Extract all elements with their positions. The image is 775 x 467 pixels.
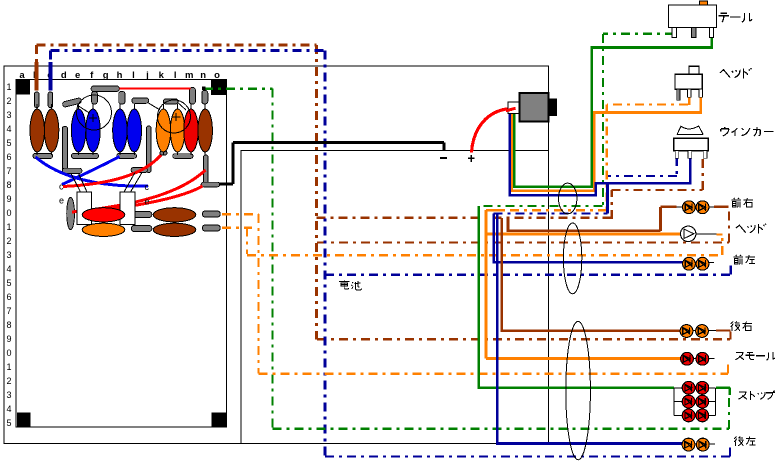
- wire: green solid tail switch to motor plus: [479, 30, 730, 395]
- label: battery plus: [468, 155, 475, 162]
- diode body orange row11: [82, 223, 125, 236]
- switch SW1 tail button: [700, 1, 708, 5]
- LED rear-right 1: [680, 325, 693, 338]
- diode link pill left row10: [131, 212, 152, 218]
- wire: brown solid front-right lamp feed: [502, 207, 729, 331]
- wire: navy dash-dot to winker left leg: [607, 157, 676, 176]
- LED stop 6: [696, 409, 709, 422]
- LED body b (brown): [30, 109, 44, 152]
- wire: brown dash-dot rail from breadboard b1 to right: [37, 45, 317, 339]
- LED small 2: [696, 352, 709, 365]
- diode body red row10: [82, 208, 125, 222]
- wire: brown dash-dot front-right lamp return: [317, 208, 729, 243]
- motor M1 terminal block: [508, 102, 520, 114]
- LED stop 3: [682, 395, 695, 408]
- lamp cluster rear-left wire: [682, 443, 715, 445]
- lamp cluster rear-right wire: [680, 330, 716, 332]
- svg-text:1: 1: [6, 82, 11, 92]
- wire: orange solid head lamp feed: [486, 233, 680, 236]
- svg-text:4: 4: [6, 124, 11, 134]
- pin m1-m2: [189, 88, 195, 105]
- switch SW1 leg 1: [672, 28, 677, 38]
- switch SW2 head knob: [689, 66, 699, 74]
- wire: green dash-dot from tail switch left leg: [479, 34, 674, 206]
- lamp head wire: [680, 233, 716, 235]
- lead diagonal j2 pill to k3: [148, 102, 161, 110]
- component leads (thin black): [37, 104, 205, 155]
- label stop ストップ: [738, 391, 775, 400]
- LED body h (blue): [113, 109, 127, 152]
- switch SW3 leg 1: [675, 151, 679, 159]
- LED rear-left 1: [682, 438, 695, 451]
- svg-text:4: 4: [6, 404, 11, 414]
- jumper wire blue h6 to c1 pad: [62, 157, 120, 185]
- svg-text:1: 1: [6, 222, 11, 232]
- lead diagonal l2 pill to m3: [178, 103, 186, 110]
- LED front-right 1: [683, 201, 696, 214]
- LED stop 1: [682, 381, 695, 394]
- LED body c (brown): [44, 109, 58, 152]
- wire: red battery plus to motor: [472, 108, 516, 152]
- LED front-left 1: [683, 257, 696, 270]
- jumper g1-h1: [91, 86, 119, 92]
- wire: orange dash-dot from head switch middle leg: [502, 105, 688, 211]
- svg-text:7: 7: [6, 166, 11, 176]
- wire: black minus wire from breadboard n8 to battery: [220, 143, 444, 185]
- LED body i (blue): [127, 109, 141, 152]
- wire: brown dash-dot winker return: [317, 157, 703, 219]
- switch SW2 leg 2: [688, 89, 691, 97]
- svg-text:9: 9: [6, 334, 11, 344]
- svg-text:5: 5: [6, 138, 11, 148]
- wire: navy solid rear-left lamp feed: [497, 214, 682, 444]
- lamp cluster stop bracket: [674, 388, 716, 416]
- breadboard wire stub navy column c: [49, 62, 53, 91]
- LED stop 5: [682, 409, 695, 422]
- transistor T2 body: [120, 192, 135, 225]
- lamp cluster front-left wire: [683, 261, 715, 263]
- switch SW3 leg 2: [688, 151, 692, 159]
- jumper wire red k6 to c1: [63, 155, 161, 187]
- motor M1 body: [520, 93, 549, 122]
- lamp head bulb triangle: [684, 229, 694, 239]
- diode body brown row10 right: [153, 208, 196, 222]
- svg-text:m: m: [185, 70, 193, 81]
- diode link pill right row10: [202, 211, 220, 217]
- LED stop 4: [696, 395, 709, 408]
- svg-text:g: g: [103, 70, 109, 81]
- transistor T1 body: [77, 192, 91, 225]
- LED small 1: [681, 352, 694, 365]
- svg-text:2: 2: [6, 376, 11, 386]
- pin c1-c2: [48, 92, 53, 108]
- svg-text:n: n: [200, 70, 206, 81]
- wire: navy solid motor to winker middle leg: [494, 107, 691, 444]
- cable bundle tie 3: [566, 321, 591, 459]
- wire: navy dash-dot front-left lamp return: [325, 264, 731, 275]
- jumper d4-d7: [62, 126, 67, 172]
- green junction dot at n1: [202, 87, 206, 91]
- lamp cluster small wire: [680, 358, 715, 360]
- LED body f (blue): [86, 109, 100, 152]
- wire: orange solid head switch to motor plus: [486, 97, 701, 359]
- pill e6-f6: [72, 153, 99, 158]
- pin h2: [119, 92, 125, 105]
- switch SW3 winker body: [674, 138, 709, 150]
- svg-text:5: 5: [6, 418, 11, 428]
- switch SW2 leg 1: [677, 89, 680, 100]
- switch SW1 leg 2: [691, 28, 696, 38]
- label front-right 前右: [731, 198, 753, 208]
- label tail switch テール: [719, 13, 753, 22]
- cable bundle tie 1: [559, 183, 577, 214]
- label winker switch ウィンカー: [721, 127, 774, 136]
- jumper wire red h1 to m1: [119, 87, 190, 89]
- LED body k (orange): [156, 109, 170, 152]
- wire: orange dash-dot head lamp return: [247, 235, 722, 256]
- svg-text:3: 3: [6, 110, 11, 120]
- lead diagonal d2 pill to f3: [77, 105, 94, 116]
- LED body m (red): [184, 109, 198, 152]
- pin n2: [202, 90, 208, 104]
- jumper wire red n8 to diode: [85, 186, 203, 214]
- svg-text:7: 7: [6, 306, 11, 316]
- svg-text:5: 5: [6, 278, 11, 288]
- svg-text:d: d: [61, 70, 67, 81]
- wire: orange dash-dot stubs from breadboard diodes: [222, 105, 728, 374]
- switch SW1 tail body: [669, 5, 717, 28]
- label: battery minus: [440, 157, 447, 159]
- wire: green dash-dot from breadboard n1 around bottom: [204, 34, 729, 429]
- transistor circle symbol 2: [158, 100, 191, 133]
- svg-text:h: h: [117, 70, 123, 81]
- pin g2: [92, 92, 98, 105]
- switch SW3 leg 3: [703, 151, 707, 159]
- svg-text:j: j: [145, 70, 149, 81]
- wire: orange solid feed drop to small lamp: [486, 210, 680, 358]
- breadboard corner hole top-right: [211, 80, 227, 95]
- wire: green solid stop lamp out to return: [716, 388, 730, 395]
- transistor circle 1 cross: [89, 114, 97, 122]
- jumper d2-e2 slanted: [62, 98, 82, 108]
- wire: brown dash-dot rear-right lamp return: [317, 332, 730, 340]
- switch SW2 head body: [675, 74, 702, 89]
- wire: orange solid head switch middle leg stub: [688, 97, 691, 105]
- jumper wire red n7 to e1: [72, 170, 206, 212]
- switch SW2 leg 3: [699, 89, 702, 97]
- svg-text:k: k: [159, 70, 165, 81]
- LED body l (orange): [170, 109, 184, 152]
- battery box: [241, 150, 549, 443]
- LED stop 2: [696, 381, 709, 394]
- svg-text:e: e: [59, 196, 64, 206]
- label rear-left 後左: [734, 436, 756, 446]
- svg-text:9: 9: [6, 194, 11, 204]
- pin b1-b2: [34, 92, 39, 108]
- wire: brown solid rear-right lamp feed: [502, 218, 680, 331]
- svg-text:3: 3: [6, 390, 11, 400]
- breadboard board: [16, 80, 227, 428]
- diode link pill left row11: [131, 226, 152, 232]
- label rear-right 後右: [731, 321, 753, 331]
- breadboard corner hole top-left: [17, 80, 31, 95]
- svg-text:o: o: [214, 70, 220, 81]
- pill b6-c6: [33, 153, 53, 158]
- svg-text:2: 2: [6, 96, 11, 106]
- svg-text:e: e: [145, 197, 150, 207]
- label small スモール: [735, 352, 775, 360]
- diode link pill right row11: [202, 225, 220, 231]
- cable bundle tie 2: [563, 223, 581, 294]
- wire: navy dash-dot feed to lamp drops: [494, 212, 608, 214]
- svg-text:3: 3: [6, 250, 11, 260]
- breadboard corner hole bottom-right: [212, 413, 227, 428]
- svg-text:4: 4: [6, 264, 11, 274]
- breadboard wire stub brown column b: [35, 62, 39, 91]
- svg-text:c: c: [145, 182, 150, 192]
- svg-text:a: a: [19, 70, 25, 81]
- svg-text:l: l: [132, 70, 135, 81]
- svg-text:0: 0: [6, 348, 11, 358]
- jumper i7-j7: [131, 168, 147, 173]
- switch SW1 leg 3: [709, 28, 713, 38]
- breadboard corner hole bottom-left: [17, 413, 31, 428]
- jumper wire blue b6 to c2 pad: [36, 157, 149, 186]
- wire: green solid stop lamp feed: [479, 206, 675, 388]
- emitter pin gray ellipse e1: [67, 197, 75, 229]
- svg-text:0: 0: [6, 208, 11, 218]
- wire: red tip at motor terminal: [506, 108, 516, 111]
- svg-text:8: 8: [6, 180, 11, 190]
- pin n6-n8: [204, 155, 209, 184]
- wire: orange dash-dot small lamp return: [259, 361, 728, 374]
- LED body e (blue): [71, 109, 85, 152]
- diode body brown row11 right: [153, 223, 196, 236]
- transistor circle 2 cross: [172, 113, 180, 121]
- wire rear-right right stub: [716, 330, 730, 332]
- svg-text:8: 8: [6, 320, 11, 330]
- jumper j3-j7: [147, 126, 152, 173]
- label front-left 前左: [733, 255, 755, 265]
- wire: navy solid tee at winker junction: [606, 183, 609, 213]
- svg-text:1: 1: [6, 362, 11, 372]
- jumper k2-l2: [163, 99, 178, 104]
- svg-text:2: 2: [6, 236, 11, 246]
- switch SW3 winker rocker: [677, 126, 703, 135]
- svg-text:l: l: [174, 70, 177, 81]
- row numbers 1-25: [6, 82, 11, 428]
- pill l6-m6: [173, 154, 193, 159]
- svg-text:6: 6: [6, 292, 11, 302]
- pin n8 pill: [201, 182, 220, 187]
- LED front-right 2: [696, 201, 709, 214]
- wire: navy dash-dot rail from breadboard c1 down right side: [50, 50, 325, 456]
- wire: brown solid front-right lamp right stub: [714, 206, 729, 209]
- label head lamp ヘッド: [736, 224, 766, 234]
- motor M1 shaft knob: [549, 99, 558, 117]
- pill h6-i6: [117, 154, 137, 159]
- lamp head bulb: [681, 226, 696, 241]
- wire: navy dash-dot rear-left lamp return: [325, 446, 730, 457]
- outer chassis box: [4, 66, 549, 443]
- jumper d7-e7: [62, 168, 82, 173]
- svg-text:e: e: [75, 70, 80, 81]
- wire: navy solid front-left lamp feed: [494, 214, 683, 263]
- lamp cluster front-right wire: [677, 206, 715, 208]
- label head switch ヘッド: [720, 68, 752, 78]
- transistor T2 legs: [124, 173, 142, 193]
- column letters a-o: [19, 70, 220, 81]
- jumper i2-j2: [132, 98, 149, 103]
- svg-text:c: c: [59, 182, 64, 192]
- svg-text:6: 6: [6, 152, 11, 162]
- LED rear-right 2: [696, 325, 709, 338]
- battery label 電池: [339, 280, 361, 290]
- LED front-left 2: [696, 257, 709, 270]
- transistor T1 legs: [71, 174, 87, 193]
- pill k6 small: [160, 151, 167, 155]
- transistor circle symbol 1: [77, 95, 112, 130]
- LED rear-left 2: [696, 438, 709, 451]
- LED body n (brown): [198, 109, 212, 152]
